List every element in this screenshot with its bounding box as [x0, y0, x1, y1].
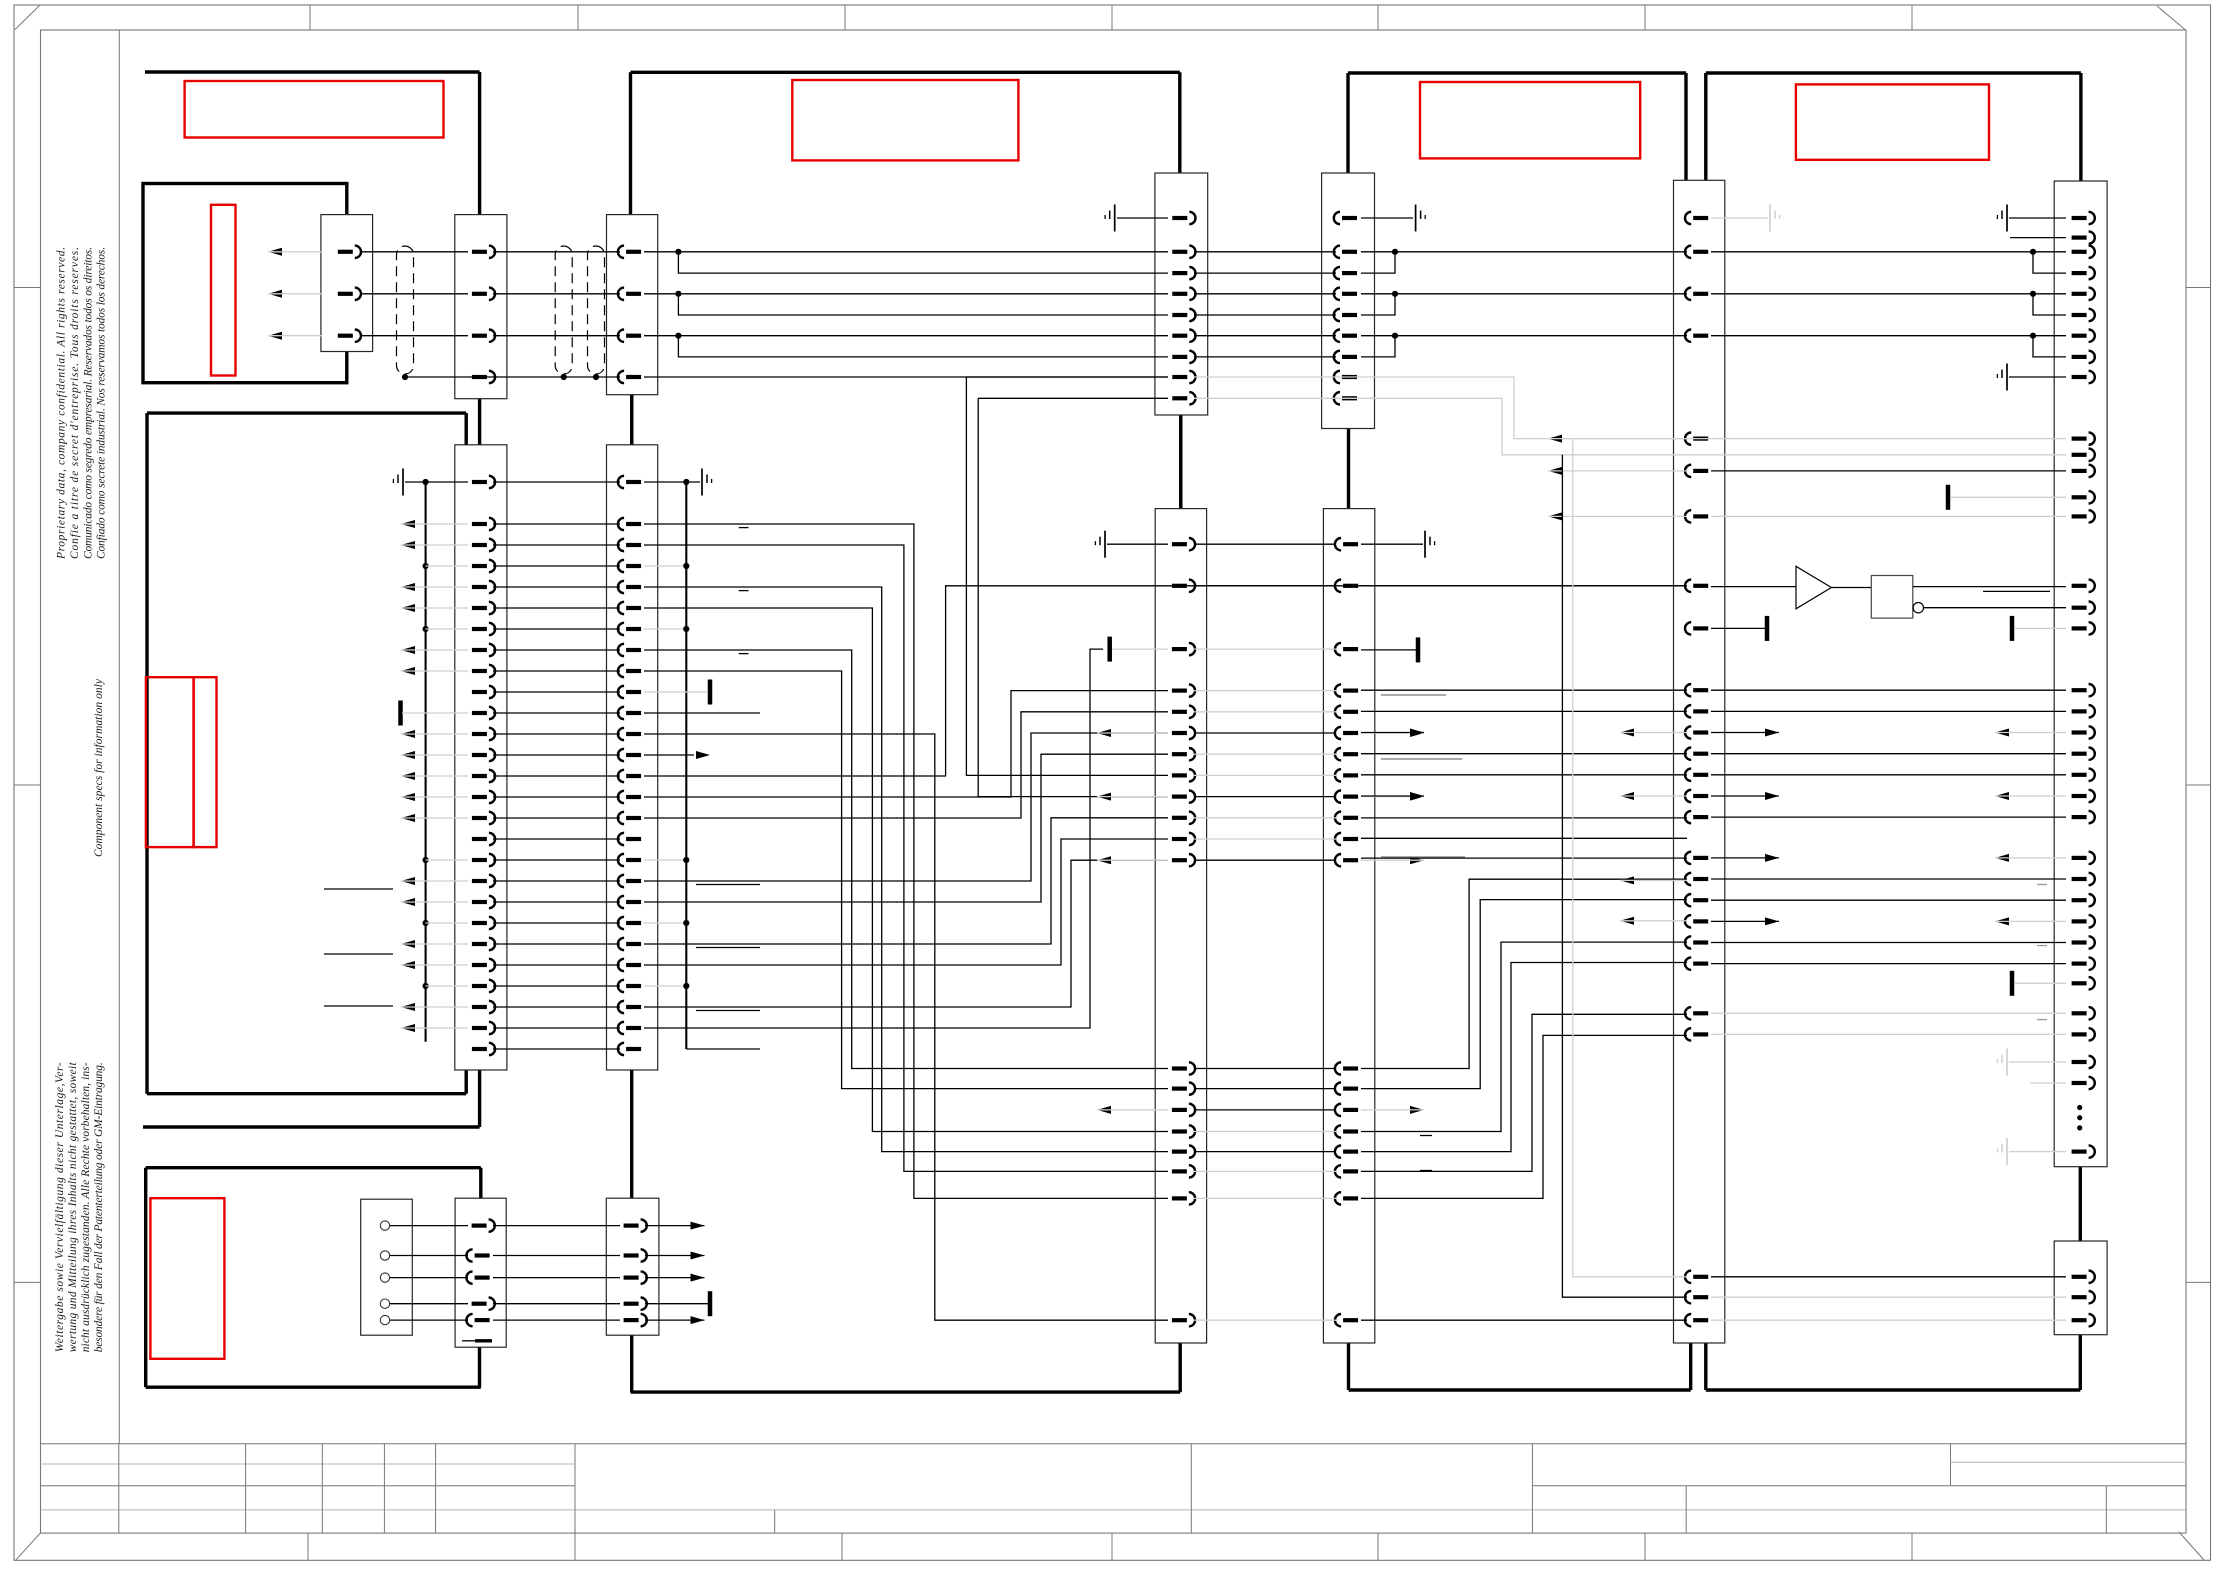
wire J2 to J3: [493, 544, 620, 546]
module E right edge seg2: [1179, 415, 1182, 509]
wire splice to J11: [1950, 496, 2066, 498]
wire J2 to J3: [493, 754, 620, 756]
pin of J1 (module B): [338, 292, 353, 296]
pin of J9 (module F left lower): [1343, 1149, 1358, 1153]
arrow out left: [1097, 856, 1111, 864]
pin of J7 (module E right lower): [1172, 731, 1187, 735]
module E left edge seg4: [630, 1335, 633, 1392]
module A right edge seg3: [478, 1070, 481, 1127]
pin of J9 (module F left lower): [1343, 858, 1358, 862]
pin of J3 lower: [626, 900, 641, 904]
pin of J11 (module G right): [2072, 216, 2087, 220]
pin of J9 (module F left lower): [1343, 710, 1358, 714]
wire J10 to splice: [1711, 627, 1765, 629]
left column divider: [118, 30, 120, 1444]
wire up-over: [644, 754, 1168, 902]
pin of J10 (module F right): [1693, 794, 1708, 798]
arrow in left: [1620, 792, 1634, 800]
arrow out left: [1097, 729, 1111, 737]
pin of J3 lower: [626, 690, 641, 694]
pin of J2 lower: [472, 921, 487, 925]
wire up-over: [644, 839, 1168, 965]
wire J10 to J11: [1711, 293, 2066, 295]
wire J6 to J8: [1194, 293, 1336, 295]
pin of J5 (module D outer): [624, 1253, 639, 1257]
junction: [683, 563, 689, 569]
svg-text:Proprietary data, company con: Proprietary data, company confidential. …: [56, 247, 68, 560]
wire splice to J7: [1112, 648, 1168, 650]
ground gray: [1769, 205, 1771, 232]
wire J6 to J8: [1194, 356, 1336, 358]
label line: [324, 1005, 393, 1007]
label box module D: [150, 1198, 224, 1359]
pin of J7 (module E right lower): [1172, 647, 1187, 651]
splice: [708, 680, 713, 705]
pin of J7 (module E right lower): [1172, 794, 1187, 798]
pin of J11 (module G right): [2072, 626, 2087, 630]
wire J10 to J11 gray: [1711, 1033, 2066, 1035]
wire J9 to J10: [1361, 837, 1687, 839]
pin of J3 upper: [626, 292, 641, 296]
module G right edge seg1: [2079, 73, 2082, 181]
connector continuation dots: [2077, 1115, 2082, 1120]
wire J1 to J2: [360, 293, 468, 295]
label box module C a: [146, 677, 194, 847]
wire J7 to J9: [1194, 1170, 1336, 1172]
arrow into module C: [401, 646, 415, 654]
pin of J2 upper: [472, 334, 487, 338]
wire J8 to ground: [1361, 217, 1413, 219]
frame tick top: [1111, 5, 1113, 30]
pin of J4 (module D inner): [475, 1275, 490, 1279]
pin of J10 (module F right): [1693, 856, 1708, 860]
wire ground to J2: [405, 481, 468, 483]
pin of J11 (module G right): [2072, 919, 2087, 923]
wire arrow to J2: [401, 607, 468, 609]
wire J2 to J3: [493, 733, 620, 735]
pin of J11 (module G right): [2072, 271, 2087, 275]
pin of J11 (module G right): [2072, 334, 2087, 338]
splice: [2010, 616, 2015, 641]
wire split elbow: [678, 336, 1168, 357]
wire J9 arrow: [1361, 1109, 1424, 1111]
wire arrow to J2: [401, 943, 468, 945]
junction: [423, 983, 429, 989]
wire J7 to J9: [1194, 1197, 1336, 1199]
pin of J3 lower: [626, 564, 641, 568]
wire J10 to J11: [1711, 515, 2066, 517]
pin of J6 (module E right upper): [1172, 334, 1187, 338]
pin of J11 (module G right): [2072, 495, 2087, 499]
junction: [2030, 249, 2036, 255]
wire rise staircase: [1361, 942, 1687, 1131]
connector J10 (module F right): [1674, 180, 1725, 1343]
pin of J8 (module F left upper): [1342, 250, 1357, 254]
wire ground to J6: [1117, 217, 1168, 219]
pin of J3 lower: [626, 648, 641, 652]
pin of J8 (module F left upper): [1342, 271, 1357, 275]
wire J3 to splice: [644, 691, 708, 693]
wire arrow J10: [1548, 470, 1687, 472]
wire J2 to J3: [493, 985, 620, 987]
wire J7 to J9: [1194, 1151, 1336, 1153]
frame tick top: [1911, 5, 1913, 30]
arrow out right: [691, 1274, 705, 1282]
module E right edge seg1: [1178, 72, 1181, 173]
wire split elbow: [2033, 252, 2066, 273]
pin of J8 (module F left upper): [1342, 396, 1357, 400]
module F left edge seg2: [1347, 429, 1350, 509]
pin of J11 (module G right): [2072, 940, 2087, 944]
switch contact: [380, 1315, 389, 1324]
label line: [1381, 758, 1462, 760]
wire J3 to J6: [644, 251, 1168, 253]
module D right edge seg1: [479, 1168, 482, 1199]
label line: [324, 888, 393, 890]
ground: [1104, 531, 1106, 558]
wire J2 to J3: [493, 880, 620, 882]
pin of J11 (module G right): [2072, 514, 2087, 518]
pin of J9 (module F left lower): [1343, 1318, 1358, 1322]
wire J2 to J3: [493, 523, 620, 525]
wire up-over: [644, 712, 1168, 818]
pin of J2 lower: [472, 984, 487, 988]
pin of J11 (module G right): [2072, 469, 2087, 473]
wire rise staircase: [1361, 1035, 1687, 1198]
wire arrow J10: [1548, 438, 1687, 440]
arrow into module C: [401, 961, 415, 969]
pin of J8 (module F left upper): [1342, 292, 1357, 296]
pin of J11 (module G right): [2072, 773, 2087, 777]
junction: [675, 249, 681, 255]
wire staircase: [644, 650, 1168, 1069]
wire J10 to J11: [1711, 963, 2066, 965]
pin of J11 (module G right): [2072, 794, 2087, 798]
pin of J10 (module F right): [1693, 1275, 1708, 1279]
pin of J7 (module E right lower): [1172, 816, 1187, 820]
pin of J9 (module F left lower): [1343, 1196, 1358, 1200]
shielded pair symbol: [555, 246, 572, 374]
arrow out right: [1410, 856, 1424, 864]
wire drop to right: [1194, 377, 2066, 439]
wire J6 to J8: [1194, 335, 1336, 337]
wire bus drop: [1573, 439, 1687, 1277]
pin of J3 upper: [626, 250, 641, 254]
junction: [683, 983, 689, 989]
ground gray: [2006, 1049, 2008, 1076]
wire J9 to J10: [1361, 817, 1687, 819]
pin of J11 (module G right): [2072, 688, 2087, 692]
wire J10 stub: [1711, 732, 1779, 734]
wire J2 to J3: [493, 691, 620, 693]
junction: [1392, 333, 1398, 339]
arrow into module C: [401, 898, 415, 906]
pin of J10 (module F right): [1693, 919, 1708, 923]
svg-text:wertung und Mitteilung ihres I: wertung und Mitteilung ihres Inhalts nic…: [67, 1062, 79, 1353]
wire J9 stub: [1361, 732, 1424, 734]
frame tick left: [14, 1281, 41, 1283]
arrow into module C: [401, 1024, 415, 1032]
wire splice to J2: [402, 712, 468, 714]
wire split elbow: [2033, 294, 2066, 315]
wire J9 to J10: [1361, 774, 1687, 776]
module E left edge seg2: [630, 395, 633, 445]
frame tick bottom: [1644, 1533, 1646, 1560]
pin of J10 (module F right): [1693, 961, 1708, 965]
arrow in left: [1995, 792, 2009, 800]
title block column line: [383, 1444, 385, 1533]
junction: [675, 333, 681, 339]
pin of J6 (module E right upper): [1172, 355, 1187, 359]
wire J6 row8 to drop: [966, 376, 1168, 378]
pin of J7 (module E right lower): [1172, 1129, 1187, 1133]
switch contact: [380, 1299, 389, 1308]
pin of J11 (module G right): [2072, 856, 2087, 860]
wire staircase: [644, 545, 1168, 1171]
connector J4 (module D inner): [455, 1198, 506, 1347]
label box module B: [211, 205, 236, 376]
wire J7 to J9: [1194, 859, 1336, 861]
arrow in left: [1620, 729, 1634, 737]
module A top edge: [145, 70, 480, 73]
wire splice to J11: [2014, 982, 2066, 984]
arrow into module C: [401, 730, 415, 738]
module G right edge link: [2079, 1167, 2082, 1241]
frame tick left: [14, 784, 41, 786]
arrow into module C: [401, 751, 415, 759]
wire J2 to J3: [493, 607, 620, 609]
junction: [423, 563, 429, 569]
wire J2 to J3: [493, 1006, 620, 1008]
pin of J10 (module F right): [1693, 752, 1708, 756]
pin of J9 (module F left lower): [1343, 773, 1358, 777]
wire up-over to splice: [644, 649, 1103, 1028]
module F left edge seg1: [1346, 73, 1349, 173]
wire J10 to J11 gray: [1711, 1012, 2066, 1014]
wire J2 to J3: [493, 649, 620, 651]
wire J10 to buffer U1: [1711, 586, 1796, 588]
pin of J3 lower: [626, 606, 641, 610]
wire J2 to J3: [493, 775, 620, 777]
wire J7 to J9: [1194, 1088, 1336, 1090]
wire J7 to J9: [1194, 543, 1336, 545]
connector J11 (module G right): [2054, 181, 2107, 1167]
wire switch to J4: [390, 1303, 468, 1305]
title block row line right: [1532, 1485, 2186, 1487]
pin of J3 lower: [626, 753, 641, 757]
module D bottom edge: [146, 1385, 481, 1388]
pin of J11 (module G right): [2072, 752, 2087, 756]
wire J2 to J3: [493, 922, 620, 924]
connector J5 (module D outer): [606, 1198, 659, 1335]
pin of J9 (module F left lower): [1343, 837, 1358, 841]
arrow into module B: [268, 290, 282, 298]
wire J2 to J3: [493, 838, 620, 840]
wire J3 row 755 out: [644, 754, 694, 756]
wire J10 to J11: [1711, 753, 2066, 755]
frame tick bottom: [574, 1533, 576, 1560]
ground: [1415, 205, 1417, 232]
pin of J4 (module D inner): [475, 1253, 490, 1257]
label line: [696, 947, 760, 949]
label line: [1381, 856, 1465, 858]
wire ground to J11: [2009, 376, 2066, 378]
arrow out right: [1410, 729, 1424, 737]
wire arrow to J1: [268, 293, 322, 295]
pin of J11 (module G right): [2072, 355, 2087, 359]
pin of J4 (module D inner): [472, 1223, 487, 1227]
wire arrow to J1: [268, 251, 322, 253]
wire J9 arrow: [1361, 859, 1424, 861]
shielded pair symbol: [588, 246, 605, 374]
pin of J7 (module E right lower): [1172, 584, 1187, 588]
wire J8 into module F: [1361, 251, 1687, 253]
wire J7 to J9: [1194, 732, 1336, 734]
wire J7 to J9: [1194, 774, 1336, 776]
pin of J7 (module E right lower): [1172, 1066, 1187, 1070]
pin of J3 lower: [626, 711, 641, 715]
arrow out left: [1548, 467, 1562, 475]
switch contact: [380, 1273, 389, 1282]
arrow in left: [1995, 854, 2009, 862]
frame tick bottom: [307, 1533, 309, 1560]
pin of J3 lower: [626, 522, 641, 526]
pin of J10 (module F right): [1693, 898, 1708, 902]
frame tick top: [577, 5, 579, 30]
pin of J3 lower: [626, 543, 641, 547]
module C right edge seg2: [465, 1070, 468, 1094]
wire arrow to J2: [401, 796, 468, 798]
pin of J3 upper: [626, 334, 641, 338]
junction: [561, 374, 567, 380]
pin of J6 (module E right upper): [1172, 396, 1187, 400]
connector J3 upper: [607, 215, 658, 395]
module C bottom edge: [147, 1092, 466, 1095]
wire J7 to J9: [1194, 753, 1336, 755]
wire J7 to J9: [1194, 585, 1336, 587]
wire J2 to J3: [493, 1048, 620, 1050]
pin of J10 (module F right): [1693, 216, 1708, 220]
wire J4 to J5: [493, 1225, 620, 1227]
wire ground to J11: [2009, 1061, 2066, 1063]
wire arrow to J10: [1620, 920, 1687, 922]
module A right edge seg2: [478, 399, 481, 445]
frame corner mark top-left: [15, 6, 40, 30]
pin of J3 lower: [626, 984, 641, 988]
junction: [1392, 249, 1398, 255]
wire J2 to J3: [493, 335, 620, 337]
wire rise staircase: [1361, 879, 1687, 1068]
pin of J11 (module G right): [2072, 961, 2087, 965]
pin of J2 lower: [472, 816, 487, 820]
wire J2 to J3: [493, 796, 620, 798]
label tick gray: [2037, 945, 2047, 947]
wire arrow J10: [1548, 515, 1687, 517]
wire stub J11: [2010, 237, 2066, 239]
wire rise staircase: [1361, 963, 1687, 1152]
pin of J2 lower: [472, 774, 487, 778]
pin of J6 (module E right upper): [1172, 271, 1187, 275]
wire ground to J11: [2009, 217, 2066, 219]
wire J9 to J10 bottom: [1361, 1319, 1687, 1321]
connector J3 lower: [607, 445, 658, 1070]
connector J6 (module E right upper): [1155, 173, 1208, 415]
buffer U1: [1796, 566, 1831, 609]
pin of J2 upper: [472, 375, 487, 379]
frame tick left: [14, 287, 41, 289]
arrow into module C: [401, 583, 415, 591]
wire rise staircase: [1361, 1014, 1687, 1171]
pin of J2 lower: [472, 795, 487, 799]
pin of J11 (module G right): [2072, 730, 2087, 734]
switch block S1: [361, 1199, 413, 1335]
pin of J10 (module F right): [1693, 815, 1708, 819]
wire arrow to J2: [401, 649, 468, 651]
wire J10 to J11: [1711, 710, 2066, 712]
wire J5 to splice: [645, 1303, 708, 1305]
pin of J11 (module G right): [2072, 437, 2087, 441]
pin of J10 (module F right): [1693, 1318, 1708, 1322]
pin of J9 (module F left lower): [1343, 1086, 1358, 1090]
pin of J3 lower: [626, 963, 641, 967]
wire J2 to J3: [493, 628, 620, 630]
junction: [423, 626, 429, 632]
title block column line: [1950, 1444, 1952, 1486]
wire J10 to ground: [1711, 217, 1768, 219]
arrow into module B: [268, 332, 282, 340]
ground gray: [2006, 1138, 2008, 1165]
pin of J6 (module E right upper): [1172, 216, 1187, 220]
label line: [696, 884, 760, 886]
arrow out left: [1548, 435, 1562, 443]
wire staircase: [644, 587, 1168, 1152]
wire arrow to J2: [401, 817, 468, 819]
frame tick bottom: [1377, 1533, 1379, 1560]
wire split elbow: [678, 294, 1168, 315]
wire arrow to J10: [1620, 732, 1687, 734]
wire J2 to J3: [493, 712, 620, 714]
pin of J11 (module G right): [2072, 709, 2087, 713]
pin of J10 (module F right): [1693, 334, 1708, 338]
pin of J10 (module F right): [1693, 584, 1708, 588]
wire arrow to J11: [1995, 920, 2066, 922]
pin of J10 (module F right): [1693, 877, 1708, 881]
wire arrow to J11: [1995, 732, 2066, 734]
wire J9 to ground: [1361, 543, 1423, 545]
frame tick right: [2186, 1281, 2211, 1283]
module G bottom edge: [1706, 1388, 2081, 1391]
ground: [2006, 364, 2008, 391]
label box module E: [792, 80, 1018, 160]
junction: [675, 291, 681, 297]
label box module C b: [194, 677, 217, 847]
wire switch to J4: [390, 1225, 468, 1227]
module C top edge: [147, 411, 466, 414]
module E top edge: [631, 71, 1180, 74]
junction: [683, 479, 689, 485]
title block column line: [435, 1444, 437, 1533]
wire arrow to J2: [401, 670, 468, 672]
pin of J9 (module F left lower): [1343, 542, 1358, 546]
junction: [423, 479, 429, 485]
arrow out right: [1765, 792, 1779, 800]
junction: [1392, 291, 1398, 297]
wire J10 to J12: [1711, 1276, 2066, 1278]
pin of J7 (module E right lower): [1172, 858, 1187, 862]
pin of J3 lower: [626, 816, 641, 820]
wire J10 to J11: [1711, 251, 2066, 253]
junction: [593, 374, 599, 380]
